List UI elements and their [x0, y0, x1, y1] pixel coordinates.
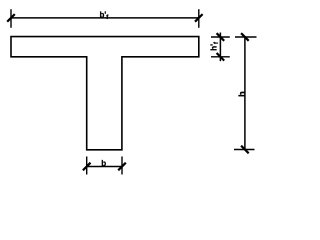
dimension h tick top	[241, 33, 249, 41]
dimension b tick left	[83, 163, 91, 171]
dimension h'f tick top	[217, 33, 225, 41]
dimension h extension line bottom	[234, 149, 255, 151]
T-section outline	[11, 37, 199, 150]
dimension b'f extension line left	[10, 9, 12, 28]
svg-text:h: h	[237, 91, 248, 97]
dimension h tick bottom	[241, 146, 249, 154]
dimension b extension line right	[121, 157, 123, 175]
dimension h'f extension line top	[211, 36, 230, 38]
dimension b line	[87, 166, 122, 168]
dimension b'f tick left	[7, 14, 15, 22]
dimension b'f extension line right	[198, 9, 200, 28]
dimension h'f tick bottom	[217, 53, 225, 61]
dimension h'f line	[219, 33, 221, 62]
dimension b'f tick right	[195, 14, 203, 22]
dimension h'f extension line bottom	[211, 56, 230, 58]
dimension h line	[244, 37, 246, 150]
dimension b'f line	[11, 17, 199, 19]
dimension b extension line left	[86, 157, 88, 175]
dimension h extension line top	[235, 36, 257, 38]
svg-text:b: b	[101, 159, 106, 168]
dimension b tick right	[118, 163, 126, 171]
